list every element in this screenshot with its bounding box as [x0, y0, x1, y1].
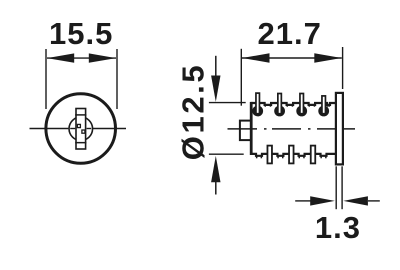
- svg-text:21.7: 21.7: [258, 16, 322, 51]
- svg-text:15.5: 15.5: [49, 16, 113, 51]
- svg-text:Ø12.5: Ø12.5: [176, 63, 211, 160]
- svg-text:1.3: 1.3: [315, 210, 361, 245]
